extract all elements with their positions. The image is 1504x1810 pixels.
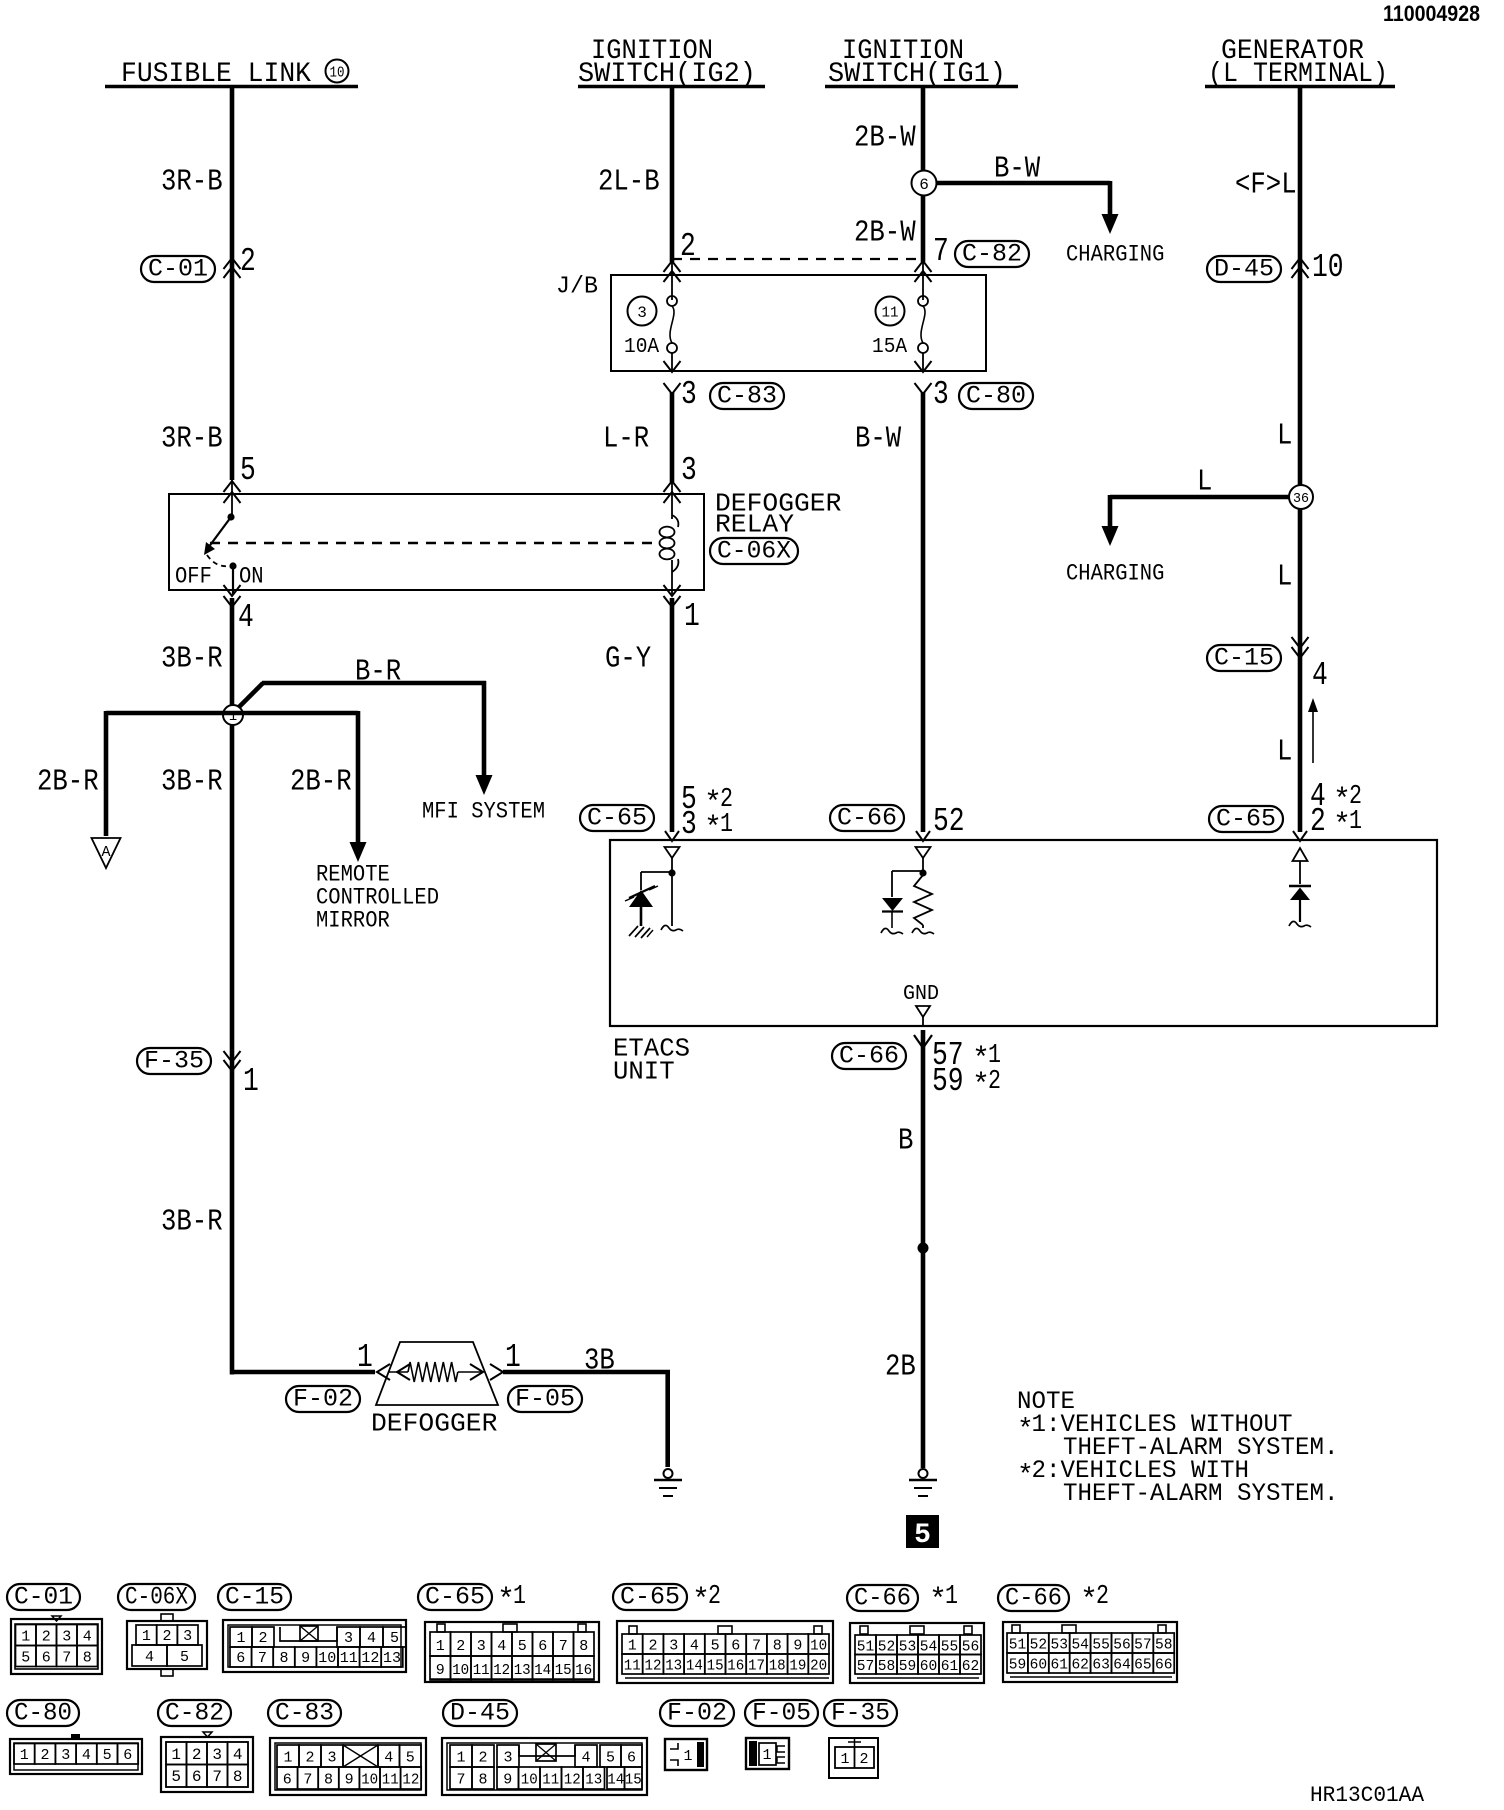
svg-text:66: 66 <box>1155 1657 1173 1674</box>
svg-text:15: 15 <box>625 1772 642 1789</box>
svg-text:C-65: C-65 <box>1216 805 1276 834</box>
svg-text:1: 1 <box>436 1638 445 1655</box>
svg-text:11: 11 <box>882 304 899 321</box>
svg-text:B-W: B-W <box>855 422 902 457</box>
svg-text:11: 11 <box>542 1772 559 1789</box>
svg-text:51: 51 <box>1009 1637 1027 1654</box>
svg-text:F-35: F-35 <box>831 1699 890 1728</box>
svg-text:C-06X: C-06X <box>125 1583 188 1612</box>
svg-text:8: 8 <box>324 1772 333 1789</box>
svg-text:CHARGING: CHARGING <box>1066 242 1164 268</box>
svg-text:36: 36 <box>1293 491 1309 507</box>
svg-text:RELAY: RELAY <box>715 510 794 540</box>
svg-text:59: 59 <box>1009 1657 1027 1674</box>
svg-text:1: 1 <box>236 1630 245 1647</box>
svg-text:5: 5 <box>240 452 256 489</box>
svg-text:3: 3 <box>61 1747 70 1764</box>
svg-text:10: 10 <box>521 1772 538 1789</box>
svg-text:ON: ON <box>239 564 264 590</box>
svg-text:3: 3 <box>503 1750 512 1767</box>
svg-text:3R-B: 3R-B <box>161 165 223 200</box>
svg-text:3: 3 <box>637 304 647 322</box>
svg-text:3: 3 <box>477 1638 486 1655</box>
svg-text:54: 54 <box>920 1639 938 1656</box>
svg-text:12: 12 <box>361 1650 379 1667</box>
svg-text:B-W: B-W <box>994 152 1041 187</box>
svg-text:C-01: C-01 <box>14 1583 73 1612</box>
svg-text:B-R: B-R <box>355 655 401 690</box>
svg-text:7: 7 <box>933 233 949 270</box>
svg-text:3: 3 <box>933 376 949 413</box>
svg-text:2: 2 <box>1310 803 1326 840</box>
svg-text:C-15: C-15 <box>225 1583 284 1612</box>
svg-text:1: 1 <box>283 1750 292 1767</box>
svg-text:C-15: C-15 <box>1214 644 1274 673</box>
svg-text:13: 13 <box>514 1662 531 1679</box>
svg-text:1: 1 <box>513 1582 526 1612</box>
svg-text:9: 9 <box>345 1772 354 1789</box>
svg-text:C-83: C-83 <box>717 382 777 411</box>
svg-text:4: 4 <box>145 1649 154 1666</box>
svg-text:2: 2 <box>456 1638 465 1655</box>
svg-text:1: 1 <box>840 1751 849 1768</box>
svg-text:4: 4 <box>233 1746 243 1764</box>
svg-text:2: 2 <box>240 243 256 280</box>
svg-text:12: 12 <box>645 1658 662 1675</box>
svg-text:1: 1 <box>683 1748 692 1765</box>
svg-text:2L-B: 2L-B <box>598 165 660 200</box>
svg-text:110004928: 110004928 <box>1383 1 1480 26</box>
svg-text:7: 7 <box>456 1772 465 1789</box>
svg-text:11: 11 <box>340 1650 358 1667</box>
svg-text:F-02: F-02 <box>667 1699 727 1728</box>
svg-text:10: 10 <box>810 1638 827 1655</box>
svg-text:2B-W: 2B-W <box>854 216 916 251</box>
svg-text:3R-B: 3R-B <box>161 422 223 457</box>
svg-text:1: 1 <box>142 1628 151 1645</box>
svg-text:63: 63 <box>1092 1657 1110 1674</box>
svg-text:2: 2 <box>258 1630 267 1647</box>
svg-text:59: 59 <box>932 1063 964 1100</box>
svg-text:11: 11 <box>382 1772 399 1789</box>
svg-text:20: 20 <box>810 1658 827 1675</box>
svg-text:HR13C01AA: HR13C01AA <box>1310 1783 1425 1808</box>
svg-text:3B-R: 3B-R <box>161 1205 223 1240</box>
svg-text:4: 4 <box>367 1630 376 1647</box>
svg-text:10: 10 <box>452 1662 469 1679</box>
svg-text:5: 5 <box>518 1638 527 1655</box>
svg-text:F-05: F-05 <box>752 1699 811 1728</box>
svg-text:14: 14 <box>534 1662 551 1679</box>
svg-text:1: 1 <box>762 1747 771 1764</box>
svg-text:L-R: L-R <box>603 422 649 457</box>
svg-text:13: 13 <box>585 1772 602 1789</box>
svg-text:51: 51 <box>857 1639 875 1656</box>
svg-text:2B-R: 2B-R <box>37 765 99 800</box>
svg-text:F-35: F-35 <box>144 1047 204 1076</box>
svg-text:7: 7 <box>752 1638 761 1655</box>
svg-text:61: 61 <box>1051 1657 1069 1674</box>
svg-text:61: 61 <box>941 1658 959 1675</box>
svg-text:4: 4 <box>384 1750 393 1767</box>
svg-text:7: 7 <box>258 1650 267 1667</box>
svg-text:8: 8 <box>579 1638 588 1655</box>
svg-text:2: 2 <box>859 1751 868 1768</box>
svg-text:5: 5 <box>606 1750 615 1767</box>
svg-text:6: 6 <box>731 1638 740 1655</box>
svg-text:9: 9 <box>301 1650 310 1667</box>
svg-text:5: 5 <box>406 1750 415 1767</box>
svg-text:5: 5 <box>914 1520 931 1551</box>
svg-text:1: 1 <box>171 1746 181 1764</box>
svg-text:52: 52 <box>933 803 965 840</box>
svg-text:9: 9 <box>436 1662 445 1679</box>
svg-text:60: 60 <box>1030 1657 1048 1674</box>
svg-text:1: 1 <box>20 1747 29 1764</box>
svg-text:D-45: D-45 <box>450 1699 510 1728</box>
svg-text:2: 2 <box>192 1746 202 1764</box>
svg-text:2B-W: 2B-W <box>854 121 916 156</box>
svg-text:12: 12 <box>493 1662 510 1679</box>
svg-text:2: 2 <box>1096 1582 1109 1612</box>
svg-text:11: 11 <box>473 1662 490 1679</box>
svg-text:16: 16 <box>575 1662 592 1679</box>
svg-text:53: 53 <box>899 1639 917 1656</box>
svg-text:10: 10 <box>1312 249 1344 286</box>
svg-text:54: 54 <box>1071 1637 1089 1654</box>
svg-text:7: 7 <box>303 1772 312 1789</box>
svg-text:C-80: C-80 <box>14 1699 72 1728</box>
svg-text:THEFT-ALARM SYSTEM.: THEFT-ALARM SYSTEM. <box>1063 1479 1339 1508</box>
svg-text:1: 1 <box>1349 807 1362 837</box>
svg-text:55: 55 <box>1092 1637 1110 1654</box>
svg-text:2B-R: 2B-R <box>290 765 352 800</box>
svg-text:13: 13 <box>665 1658 682 1675</box>
svg-text:3: 3 <box>183 1628 192 1645</box>
svg-text:6: 6 <box>627 1750 636 1767</box>
svg-text:15: 15 <box>707 1658 724 1675</box>
svg-text:5: 5 <box>21 1649 30 1666</box>
svg-text:8: 8 <box>83 1649 92 1666</box>
svg-text:4: 4 <box>82 1747 91 1764</box>
svg-text:8: 8 <box>233 1768 243 1786</box>
svg-text:7: 7 <box>212 1768 222 1786</box>
svg-text:4: 4 <box>581 1750 590 1767</box>
svg-text:2: 2 <box>305 1750 314 1767</box>
svg-text:3: 3 <box>344 1630 353 1647</box>
svg-text:5: 5 <box>390 1630 399 1647</box>
svg-text:5: 5 <box>711 1638 720 1655</box>
svg-text:4: 4 <box>1312 657 1328 694</box>
svg-text:4: 4 <box>690 1638 699 1655</box>
svg-text:2: 2 <box>478 1750 487 1767</box>
svg-text:52: 52 <box>1030 1637 1048 1654</box>
svg-text:C-06X: C-06X <box>717 537 791 566</box>
svg-text:C-83: C-83 <box>275 1699 334 1728</box>
svg-text:8: 8 <box>279 1650 288 1667</box>
svg-text:C-65: C-65 <box>620 1583 680 1612</box>
svg-text:<F>L: <F>L <box>1235 168 1297 203</box>
svg-text:65: 65 <box>1134 1657 1152 1674</box>
svg-text:C-66: C-66 <box>1005 1584 1062 1613</box>
svg-text:2: 2 <box>40 1747 49 1764</box>
svg-text:8: 8 <box>478 1772 487 1789</box>
svg-text:UNIT: UNIT <box>613 1057 675 1087</box>
svg-text:L: L <box>1277 419 1292 454</box>
svg-text:C-66: C-66 <box>839 1042 899 1071</box>
svg-text:DEFOGGER: DEFOGGER <box>371 1409 497 1439</box>
svg-text:13: 13 <box>383 1650 401 1667</box>
svg-text:57: 57 <box>857 1658 875 1675</box>
svg-text:10A: 10A <box>624 336 659 359</box>
svg-text:10: 10 <box>318 1650 336 1667</box>
svg-text:4: 4 <box>238 599 254 636</box>
svg-text:1: 1 <box>357 1339 373 1376</box>
svg-text:18: 18 <box>769 1658 786 1675</box>
svg-text:7: 7 <box>559 1638 568 1655</box>
svg-text:CHARGING: CHARGING <box>1066 561 1164 587</box>
svg-text:4: 4 <box>497 1638 506 1655</box>
svg-text:1: 1 <box>456 1750 465 1767</box>
svg-text:MIRROR: MIRROR <box>316 908 390 934</box>
svg-text:56: 56 <box>962 1639 980 1656</box>
svg-text:62: 62 <box>1071 1657 1089 1674</box>
svg-text:1: 1 <box>684 598 700 635</box>
svg-text:B: B <box>898 1124 913 1159</box>
svg-text:3: 3 <box>212 1746 222 1764</box>
svg-text:3: 3 <box>669 1638 678 1655</box>
svg-text:GND: GND <box>903 983 939 1006</box>
svg-text:62: 62 <box>962 1658 980 1675</box>
svg-text:10: 10 <box>361 1772 378 1789</box>
svg-text:16: 16 <box>727 1658 744 1675</box>
svg-text:C-66: C-66 <box>837 804 897 833</box>
svg-text:F-02: F-02 <box>293 1385 353 1414</box>
svg-text:L: L <box>1197 465 1212 500</box>
svg-text:5: 5 <box>171 1768 181 1786</box>
svg-text:6: 6 <box>192 1768 202 1786</box>
svg-text:4: 4 <box>83 1628 92 1645</box>
svg-text:J/B: J/B <box>556 273 598 300</box>
svg-text:2: 2 <box>648 1638 657 1655</box>
svg-text:3B-R: 3B-R <box>161 642 223 677</box>
svg-text:64: 64 <box>1113 1657 1131 1674</box>
svg-text:9: 9 <box>793 1638 802 1655</box>
svg-text:57: 57 <box>1134 1637 1152 1654</box>
svg-text:14: 14 <box>686 1658 703 1675</box>
svg-text:3: 3 <box>62 1628 71 1645</box>
svg-text:3: 3 <box>327 1750 336 1767</box>
svg-text:15: 15 <box>555 1662 572 1679</box>
svg-text:3: 3 <box>681 452 697 489</box>
svg-text:D-45: D-45 <box>1214 255 1274 284</box>
svg-text:11: 11 <box>624 1658 641 1675</box>
svg-text:1: 1 <box>628 1638 637 1655</box>
svg-text:12: 12 <box>564 1772 581 1789</box>
svg-text:C-66: C-66 <box>854 1584 911 1613</box>
svg-text:58: 58 <box>878 1658 896 1675</box>
svg-text:C-65: C-65 <box>587 804 647 833</box>
svg-text:5: 5 <box>103 1747 112 1764</box>
svg-text:12: 12 <box>402 1772 419 1789</box>
svg-text:59: 59 <box>899 1658 917 1675</box>
svg-text:52: 52 <box>878 1639 896 1656</box>
svg-text:A: A <box>101 844 110 861</box>
svg-text:MFI SYSTEM: MFI SYSTEM <box>422 799 545 825</box>
svg-text:6: 6 <box>283 1772 292 1789</box>
svg-text:10: 10 <box>330 64 345 81</box>
svg-text:15A: 15A <box>872 336 907 359</box>
svg-text:53: 53 <box>1051 1637 1069 1654</box>
svg-text:3B-R: 3B-R <box>161 765 223 800</box>
svg-text:19: 19 <box>789 1658 806 1675</box>
svg-text:1: 1 <box>945 1582 958 1612</box>
svg-text:7: 7 <box>62 1649 71 1666</box>
svg-text:C-82: C-82 <box>165 1699 224 1728</box>
svg-text:C-01: C-01 <box>148 255 208 284</box>
svg-text:2: 2 <box>163 1628 172 1645</box>
svg-text:55: 55 <box>941 1639 959 1656</box>
svg-text:C-65: C-65 <box>425 1583 485 1612</box>
svg-text:1: 1 <box>720 810 733 840</box>
svg-text:6: 6 <box>42 1649 51 1666</box>
svg-text:6: 6 <box>236 1650 245 1667</box>
svg-text:2: 2 <box>708 1582 721 1612</box>
svg-text:L: L <box>1277 560 1292 595</box>
svg-text:6: 6 <box>123 1747 132 1764</box>
svg-text:8: 8 <box>773 1638 782 1655</box>
svg-text:56: 56 <box>1113 1637 1131 1654</box>
svg-text:2B: 2B <box>885 1350 916 1385</box>
svg-text:6: 6 <box>538 1638 547 1655</box>
svg-text:2: 2 <box>42 1628 51 1645</box>
svg-text:3: 3 <box>681 806 697 843</box>
svg-text:L: L <box>1277 735 1292 770</box>
svg-text:1: 1 <box>21 1628 30 1645</box>
svg-text:5: 5 <box>180 1649 189 1666</box>
svg-text:F-05: F-05 <box>515 1385 575 1414</box>
svg-text:C-82: C-82 <box>962 240 1022 269</box>
svg-text:2: 2 <box>988 1067 1001 1097</box>
svg-text:6: 6 <box>919 176 929 194</box>
svg-text:G-Y: G-Y <box>605 642 652 677</box>
svg-text:58: 58 <box>1155 1637 1173 1654</box>
svg-text:17: 17 <box>748 1658 765 1675</box>
svg-text:OFF: OFF <box>175 564 212 590</box>
svg-text:9: 9 <box>503 1772 512 1789</box>
svg-text:14: 14 <box>607 1772 624 1789</box>
svg-text:1: 1 <box>243 1063 259 1100</box>
svg-text:60: 60 <box>920 1658 938 1675</box>
svg-text:C-80: C-80 <box>966 382 1026 411</box>
svg-text:3: 3 <box>681 376 697 413</box>
